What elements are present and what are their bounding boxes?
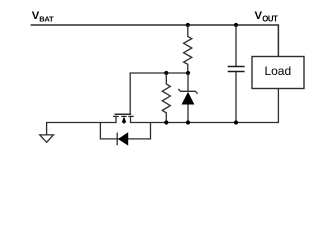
capacitor C1 top wire [235,25,237,67]
body diode D1 triangle [118,132,128,145]
transistor Q1 NMOS gate plate [115,113,132,115]
node dot top rail / R1 [186,23,190,27]
zener diode D2 cathode bar with ticks [178,89,198,94]
svg-text:BAT: BAT [39,15,54,24]
capacitor C1 bottom wire [235,72,237,123]
wire gate node mid rail and gate drop [130,73,188,114]
transistor Q1 drain contact bar [128,115,134,117]
zener diode D2 triangle [182,92,195,105]
wire drain: Q1 drain leg to bottom rail to load bottom corner [131,89,279,123]
transistor Q1 source contact bar [113,115,119,117]
zener diode D2 anode wire [187,105,189,123]
capacitor C1 top plate [228,66,245,68]
node dot top rail / C1 [234,23,238,27]
node dot mid rail / D2 zener [186,71,190,75]
body diode D1 loop wire [100,123,150,139]
transistor Q1 body contact bar [121,115,126,117]
load box [252,57,304,89]
node dot bottom rail / C1 [234,120,238,124]
node dot bottom rail / D2 [186,120,190,124]
zener diode D2 cathode wire [187,73,189,91]
node dot bottom rail / R2 [164,120,168,124]
svg-text:OUT: OUT [262,15,278,24]
svg-text:Load: Load [264,64,291,78]
capacitor C1 bottom plate [228,71,245,73]
resistor R1 (upper, VBAT to gate node) [184,25,192,73]
transistor Q1 body arrow [122,116,127,123]
net label VBAT [32,10,54,23]
net label VOUT [255,10,279,23]
node dot mid rail / R2 [164,71,168,75]
wire top rail VBAT to VOUT corner down to load [31,25,279,57]
resistor R2 (lower, gate node to ground rail) [162,73,170,123]
ground symbol [40,135,54,142]
body diode D1 cathode bar [116,133,118,146]
wire source: ground corner to Q1 source leg [47,116,116,134]
